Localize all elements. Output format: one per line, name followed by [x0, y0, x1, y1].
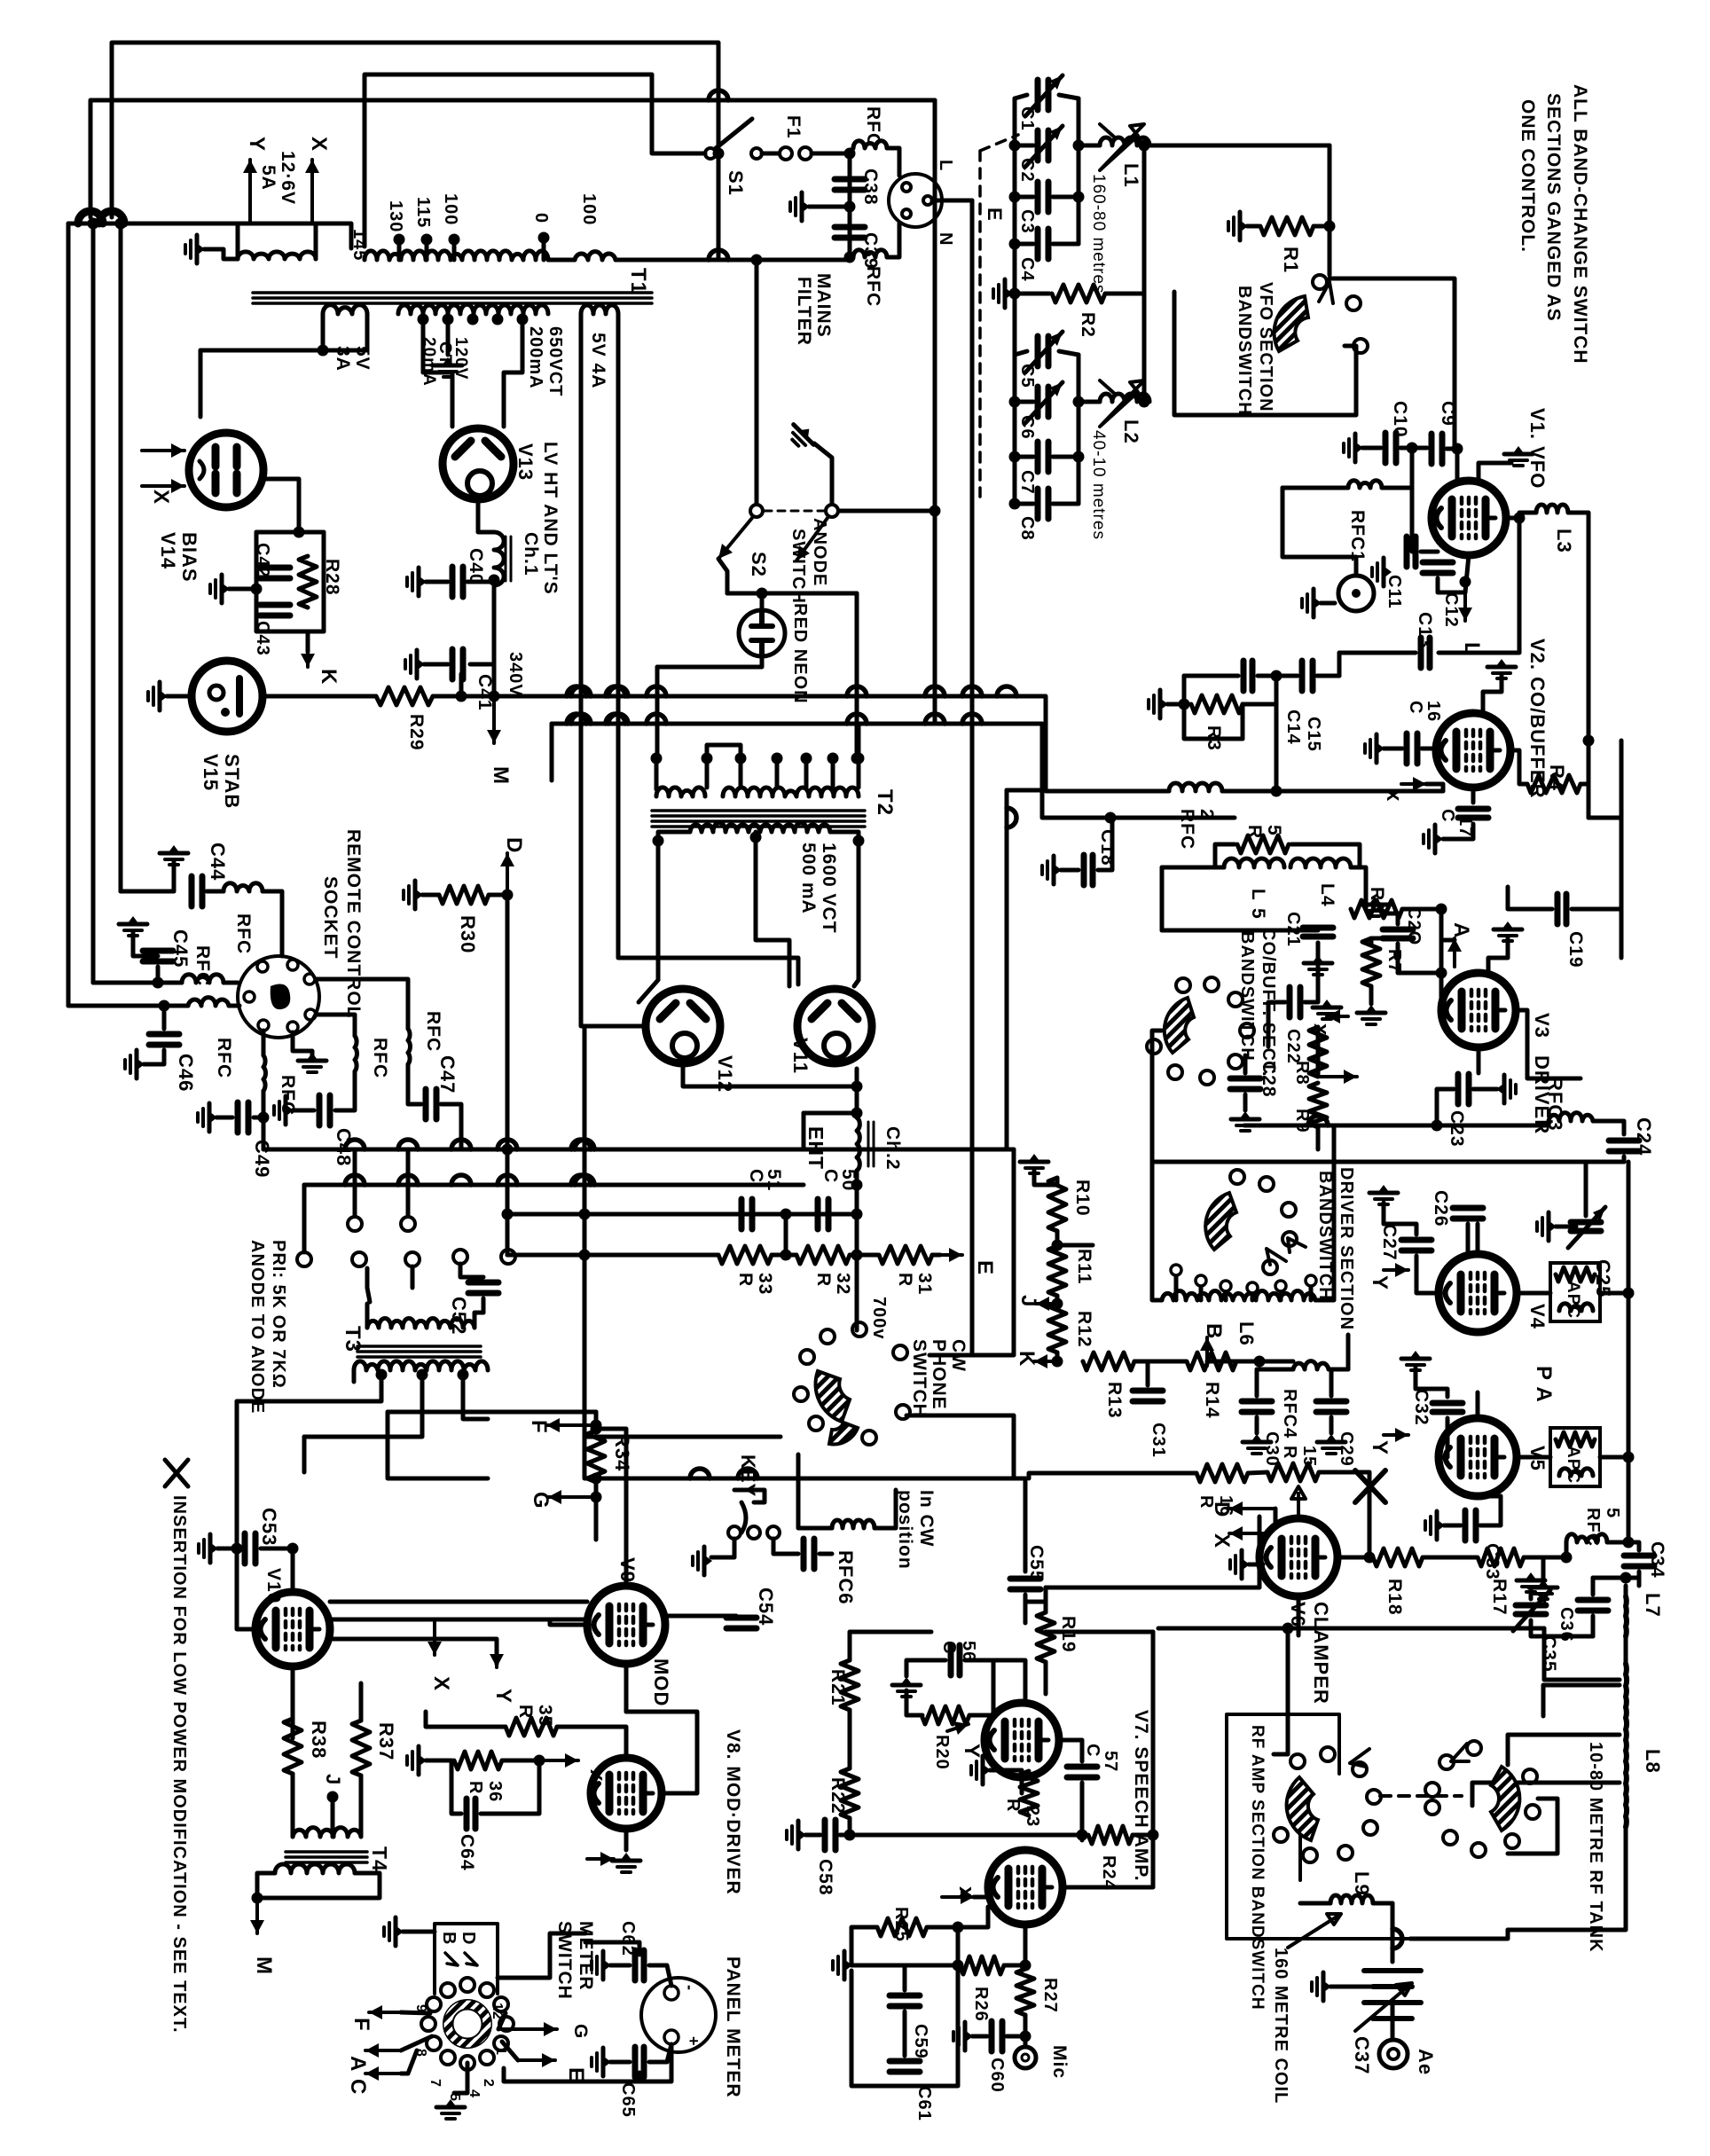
junction [591, 1423, 602, 1435]
capacitor C17 [1458, 806, 1488, 812]
junction [780, 1209, 792, 1220]
resistor R16 [1196, 1464, 1248, 1482]
vfo sw arrows [1319, 282, 1333, 303]
wire 12.6V line [68, 223, 351, 248]
ground C49 [198, 1103, 217, 1132]
wire [855, 1255, 859, 1295]
coil T1 5V3A [323, 305, 367, 314]
junction [851, 1209, 863, 1220]
svg-text:C27: C27 [1379, 1224, 1400, 1261]
wire V1 cath [1465, 555, 1469, 592]
wire [481, 1760, 539, 1814]
capacitor C62 [632, 1950, 639, 1980]
wire L6 tap [1199, 1288, 1204, 1300]
transformer T4 secondary [275, 1864, 355, 1873]
junction [591, 1473, 602, 1485]
svg-text:160 METRE COIL: 160 METRE COIL [1271, 1948, 1290, 2104]
wire [335, 1071, 355, 1110]
svg-text:C43: C43 [253, 621, 272, 656]
terminal L [1463, 592, 1467, 621]
wire [760, 593, 765, 612]
svg-text:Y: Y [960, 1744, 984, 1759]
lamp indicator [1338, 576, 1374, 611]
svg-text:C47: C47 [436, 1055, 459, 1094]
wire [1529, 1589, 1534, 1599]
wire hop [567, 714, 586, 724]
svg-text:15: 15 [1299, 1446, 1319, 1467]
capacitor C33 [1463, 1510, 1469, 1541]
capacitor C43 [260, 602, 290, 608]
wire [257, 1873, 380, 1898]
wire to C41 [459, 674, 464, 696]
junction [456, 691, 467, 702]
junction [851, 753, 863, 764]
L6 tap contact [1275, 1281, 1286, 1291]
svg-text:S1: S1 [725, 170, 747, 196]
svg-text:SWITCH: SWITCH [554, 1921, 575, 2000]
ground C32 [1401, 1351, 1430, 1370]
wire 5V4A rail [581, 314, 646, 1026]
svg-text:C6: C6 [1017, 415, 1037, 440]
tube V7 speech amp b [988, 1850, 1063, 1925]
junction [489, 691, 500, 702]
wire 5V4A rail2 [618, 314, 798, 984]
junction [492, 314, 504, 325]
svg-text:V13: V13 [514, 443, 537, 481]
terminal pin b [401, 1217, 415, 1231]
junction [449, 234, 460, 246]
capacitor C64 [464, 1799, 470, 1829]
wire anode drop b [855, 593, 859, 758]
capacitor C24 [1609, 1138, 1639, 1144]
wire hop [962, 714, 982, 724]
wire hop [1392, 1929, 1402, 1948]
wire [887, 148, 899, 176]
svg-text:C: C [939, 1641, 959, 1654]
junction [1623, 1452, 1635, 1463]
ground C11 [1372, 558, 1392, 586]
L6 tap contact [1247, 1282, 1258, 1293]
capacitor C11 [1404, 537, 1410, 567]
svg-text:R25: R25 [891, 1907, 911, 1942]
resistor R3 [1191, 695, 1243, 713]
wire [594, 1483, 599, 1540]
choke Ch.2 [857, 1117, 859, 1171]
meter pin minus [664, 1986, 679, 2000]
junction [851, 1250, 863, 1261]
capacitor C6 variable [1035, 387, 1041, 417]
svg-text:C4: C4 [1017, 257, 1037, 282]
APC V4 box [1550, 1263, 1600, 1321]
junction [1271, 786, 1282, 797]
svg-text:P A: P A [1532, 1366, 1556, 1403]
ground C29 [1317, 1434, 1345, 1454]
key contact a [728, 1526, 741, 1539]
terminal E meter [518, 2058, 555, 2062]
svg-text:R27: R27 [1040, 1978, 1060, 2013]
ground C37 [1312, 1972, 1331, 2001]
transformer T1 core [253, 291, 652, 294]
wire [850, 1253, 878, 1258]
svg-text:C: C [746, 1169, 766, 1183]
wire [848, 1818, 852, 1835]
wire [1591, 1578, 1596, 1595]
wire [1391, 2003, 1395, 2040]
wire neon feed [718, 559, 727, 593]
svg-text:R11: R11 [1074, 1249, 1094, 1284]
wire [331, 1809, 335, 1837]
terminal C meter [365, 2072, 401, 2075]
svg-text:G: G [529, 1492, 553, 1509]
wire [1384, 1203, 1416, 1235]
wire [507, 1253, 718, 1258]
capacitor C2 variable [1035, 130, 1041, 161]
inductor L2 [1100, 394, 1149, 402]
wire [1029, 1833, 1082, 1838]
svg-text:33: 33 [755, 1273, 775, 1295]
junction [844, 1830, 856, 1841]
wire L3 down [1568, 513, 1588, 741]
resistor R12 [1048, 1303, 1066, 1352]
wire [314, 223, 318, 259]
svg-text:C1: C1 [1017, 106, 1037, 131]
wire hop [571, 686, 591, 696]
svg-text:C31: C31 [1149, 1423, 1168, 1458]
arrow G meter [498, 2027, 557, 2031]
wire [1007, 2034, 1025, 2039]
svg-text:L2: L2 [1120, 419, 1142, 444]
wire [406, 1064, 411, 1100]
wire [1410, 448, 1415, 497]
wire [1015, 195, 1033, 200]
junction [851, 1108, 863, 1119]
transformer T4 primary [293, 1828, 361, 1837]
svg-text:DRIVER SECTION: DRIVER SECTION [1337, 1167, 1356, 1330]
rotary CO/BUFF bandswitch [1165, 998, 1194, 1053]
terminal A meter [365, 2049, 401, 2052]
svg-text:C54: C54 [755, 1588, 777, 1626]
junction [287, 1543, 299, 1555]
svg-text:RFC: RFC [1583, 1508, 1603, 1547]
terminal E [940, 1253, 962, 1257]
wire T2 CT [756, 837, 789, 986]
svg-text:B: B [439, 1932, 459, 1945]
resistor R34 [587, 1431, 605, 1482]
wire [754, 832, 758, 837]
svg-text:G: G [570, 2024, 591, 2039]
svg-text:5: 5 [1264, 825, 1284, 836]
L2 arrow [1100, 380, 1144, 427]
wire [1337, 653, 1342, 676]
junction [458, 1369, 469, 1381]
wire C bank right b [1077, 355, 1081, 504]
terminal X mod [433, 1619, 436, 1655]
neon electrodes [751, 612, 773, 655]
wire [467, 580, 494, 584]
svg-text:ANODE TO ANODE: ANODE TO ANODE [247, 1240, 267, 1414]
svg-text:In CW: In CW [916, 1490, 937, 1547]
terminal D V6 [1229, 1507, 1275, 1510]
wire to socket [263, 891, 282, 956]
wire [1622, 1156, 1627, 1162]
svg-text:C18: C18 [1097, 829, 1118, 866]
tube V6 CLAMPER [1259, 1518, 1337, 1596]
coil T1 100 tap [575, 252, 616, 260]
wire lamp [1306, 557, 1356, 576]
junction [1009, 192, 1021, 203]
resistor R8 [1309, 1027, 1327, 1077]
wire V2 anode [1510, 750, 1527, 784]
socket pin [287, 1022, 298, 1032]
wire mains second [90, 100, 652, 217]
svg-text:C65: C65 [618, 2082, 638, 2118]
wire [291, 1774, 295, 1837]
resistor R23 [1020, 1771, 1038, 1815]
svg-text:500 mA: 500 mA [798, 843, 819, 914]
terminal pin [348, 1217, 362, 1231]
transformer T2 core [652, 809, 865, 812]
wire [851, 1964, 958, 1968]
svg-text:RFC6: RFC6 [835, 1550, 857, 1604]
wire hop [1308, 1116, 1328, 1125]
wire [1384, 747, 1402, 751]
capacitor C5 variable [1035, 336, 1041, 366]
wire V10 V9 link [330, 1600, 587, 1604]
wire [1144, 144, 1149, 148]
svg-text:R18: R18 [1384, 1579, 1405, 1616]
svg-text:C58: C58 [815, 1859, 835, 1896]
resistor R30 [439, 886, 489, 904]
wire [727, 1212, 857, 1217]
ground C41 [405, 650, 425, 678]
ground C bank [993, 279, 1013, 308]
wire hop [709, 250, 728, 260]
svg-text:R30: R30 [457, 915, 479, 953]
wire [388, 1430, 488, 1478]
wire [502, 1759, 539, 1763]
terminal Ae outer [1379, 2040, 1408, 2068]
junction [467, 314, 479, 325]
capacitor C46 [149, 1031, 179, 1038]
wire L6 tap [1174, 1277, 1179, 1300]
socket pin [304, 974, 315, 984]
switch S1 contact [705, 148, 716, 159]
wire [784, 1214, 788, 1255]
wire [229, 587, 256, 592]
wire [1627, 1457, 1631, 1542]
wire [584, 1357, 780, 1437]
wire [1600, 1291, 1628, 1296]
svg-text:RFC: RFC [863, 266, 883, 307]
ground C46 [125, 1050, 145, 1078]
ground R17 [1529, 1580, 1557, 1599]
wire [1316, 1027, 1321, 1077]
junction [502, 1144, 514, 1156]
svg-text:ANODE: ANODE [810, 518, 829, 586]
wire [1151, 1632, 1156, 1835]
wire [906, 1690, 922, 1715]
wire hop [997, 686, 1016, 696]
wire [470, 585, 494, 664]
wire [772, 1253, 796, 1258]
wire [1447, 447, 1457, 451]
transformer T3 primary [367, 1319, 475, 1328]
resistor R13 [1083, 1352, 1134, 1370]
junction [1073, 451, 1085, 463]
wire [972, 2034, 987, 2039]
wire hop [398, 1140, 418, 1149]
svg-text:C60: C60 [987, 2058, 1007, 2093]
svg-text:C53: C53 [258, 1508, 280, 1546]
wire C bank right [1077, 98, 1081, 244]
tube V10 modulator [255, 1592, 330, 1666]
wire to C53 [235, 1401, 239, 1548]
junction [579, 1250, 591, 1261]
wire [970, 696, 975, 724]
rectifier V13 [443, 428, 514, 499]
svg-text:R26: R26 [971, 1987, 991, 2022]
svg-text:V4: V4 [1526, 1304, 1549, 1329]
wire [1053, 455, 1079, 459]
svg-text:R: R [895, 1273, 915, 1287]
capacitor C58 [822, 1820, 828, 1850]
APC V5 box [1550, 1428, 1600, 1486]
wire [1400, 446, 1427, 451]
wire T2 tap [831, 758, 835, 788]
svg-text:M: M [252, 1956, 276, 1975]
choke RFC f [408, 1029, 410, 1064]
wire [1079, 144, 1100, 148]
inductor L4 [1224, 858, 1284, 867]
svg-text:RFC: RFC [370, 1038, 390, 1078]
svg-text:L4: L4 [1317, 883, 1337, 907]
wire [1519, 513, 1536, 518]
wire pin8 F [401, 2012, 430, 2013]
wire [610, 1964, 630, 1968]
fuse F1 [780, 147, 792, 160]
wire [887, 223, 899, 257]
wire rail right [1627, 1162, 1631, 1465]
resistor R10 [1048, 1178, 1066, 1231]
terminal K b [1034, 1360, 1057, 1363]
wire [1024, 2036, 1028, 2047]
terminal pin d [352, 1252, 366, 1266]
wire [422, 893, 439, 898]
junction [1020, 2031, 1031, 2042]
wire [1025, 1602, 1046, 1612]
svg-text:R10: R10 [1072, 1180, 1093, 1217]
svg-text:F: F [527, 1420, 551, 1434]
terminal M b [255, 1898, 259, 1933]
wire anode feed [1244, 1124, 1549, 1128]
terminal M [492, 701, 496, 743]
svg-text:R8: R8 [1292, 1061, 1312, 1086]
svg-text:E: E [973, 1260, 997, 1275]
svg-text:BANDSWITCH: BANDSWITCH [1235, 286, 1254, 416]
capacitor C15 [1299, 661, 1306, 691]
wire T3 sec tap b [304, 1375, 422, 1437]
inductor L7 [1623, 1596, 1629, 1636]
wire vfo sw out [1174, 292, 1356, 415]
wire [133, 933, 158, 956]
wire C bank left [1013, 98, 1017, 260]
wire hop [345, 1175, 365, 1185]
junction [1052, 1240, 1063, 1251]
wire bus B [552, 724, 1235, 818]
resistor R20 [922, 1706, 969, 1724]
wire [261, 1547, 293, 1551]
wire [365, 314, 370, 350]
svg-text:R: R [813, 1273, 834, 1287]
svg-text:C2: C2 [1017, 158, 1037, 183]
wire [388, 1410, 596, 1415]
wire [583, 1255, 587, 1357]
wire [144, 1050, 164, 1064]
junction [1254, 1356, 1266, 1368]
coil APC V4 [1559, 1304, 1593, 1311]
wire [932, 1253, 940, 1258]
wire bus A west [263, 694, 376, 699]
junction [844, 148, 856, 160]
wire [1477, 1047, 1481, 1073]
capacitor C25 variable [1571, 1219, 1601, 1226]
wire rail 572 [506, 895, 510, 1149]
wire [624, 1829, 629, 1850]
wire [965, 1658, 993, 1663]
rotary CW wedge b [829, 1423, 858, 1444]
svg-text:C34: C34 [1647, 1541, 1667, 1579]
wire [1057, 1231, 1093, 1245]
junction [751, 255, 763, 266]
wire [1422, 747, 1436, 751]
choke RFC c44 [224, 883, 263, 891]
svg-text:RFC: RFC [863, 106, 883, 147]
svg-text:C: C [1406, 701, 1425, 714]
coil T1 12V tap [238, 252, 316, 259]
wire hop [1007, 808, 1016, 827]
wire [164, 1004, 188, 1008]
junction [1623, 1288, 1635, 1299]
svg-text:V14: V14 [157, 532, 179, 569]
wire [804, 1148, 1014, 1152]
capacitor C51 [739, 1199, 745, 1229]
svg-text:VFO SECTION: VFO SECTION [1256, 282, 1275, 412]
wire [1034, 1171, 1057, 1185]
terminal A [1453, 938, 1456, 967]
svg-text:REMOTE CONTROL: REMOTE CONTROL [343, 829, 364, 1019]
wire [1351, 867, 1366, 909]
capacitor C54 b [801, 1539, 807, 1569]
wire hop [575, 1140, 594, 1149]
wire pin6 C [401, 2050, 417, 2074]
svg-text:R12: R12 [1074, 1311, 1094, 1348]
wire [121, 890, 174, 894]
wire hop [608, 686, 628, 696]
wire V14 out [263, 479, 299, 532]
wire bus A [433, 696, 1169, 791]
rotary RF bandswitch right [1491, 1767, 1519, 1831]
wire [848, 1710, 852, 1768]
svg-text:C21: C21 [1283, 912, 1303, 947]
wire [365, 1304, 370, 1328]
wire [1053, 195, 1079, 200]
ground V7 [971, 1756, 991, 1784]
wire meter plus loop [504, 2044, 671, 2082]
wire [426, 580, 448, 584]
svg-text:T4: T4 [368, 1846, 391, 1872]
terminal B [1205, 1337, 1209, 1366]
wire [1369, 986, 1374, 1004]
